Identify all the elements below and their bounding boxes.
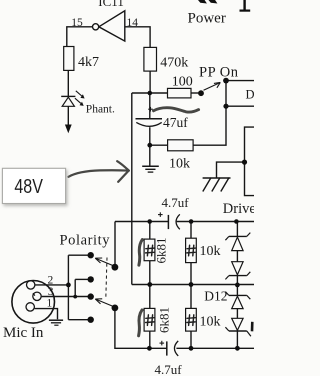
svg-text:6k81: 6k81 <box>154 238 169 264</box>
svg-text:Phant.: Phant. <box>86 103 115 115</box>
svg-text:Polarity: Polarity <box>60 232 111 248</box>
svg-text:48V: 48V <box>14 175 43 198</box>
svg-text:IC11: IC11 <box>98 0 124 9</box>
svg-text:4k7: 4k7 <box>78 55 99 70</box>
svg-text:Mic In: Mic In <box>3 325 44 341</box>
svg-text:1: 1 <box>47 298 53 310</box>
svg-text:2: 2 <box>48 275 54 287</box>
svg-text:D12: D12 <box>204 289 227 304</box>
svg-text:6k81: 6k81 <box>157 307 172 333</box>
svg-text:14: 14 <box>127 17 139 29</box>
svg-text:100: 100 <box>172 74 193 89</box>
svg-text:Power: Power <box>188 11 226 27</box>
svg-text:470k: 470k <box>160 56 188 71</box>
svg-text:Driver: Driver <box>223 201 254 217</box>
svg-text:15: 15 <box>71 17 83 29</box>
svg-text:PP On: PP On <box>199 65 239 81</box>
svg-text:4.7uf: 4.7uf <box>162 195 190 210</box>
svg-text:10k: 10k <box>200 244 221 259</box>
svg-text:47uf: 47uf <box>163 115 188 130</box>
svg-text:4.7uf: 4.7uf <box>155 362 183 376</box>
svg-text:3: 3 <box>48 286 54 298</box>
svg-text:10k: 10k <box>169 156 190 171</box>
svg-text:10k: 10k <box>200 314 221 329</box>
svg-text:D: D <box>246 88 255 102</box>
